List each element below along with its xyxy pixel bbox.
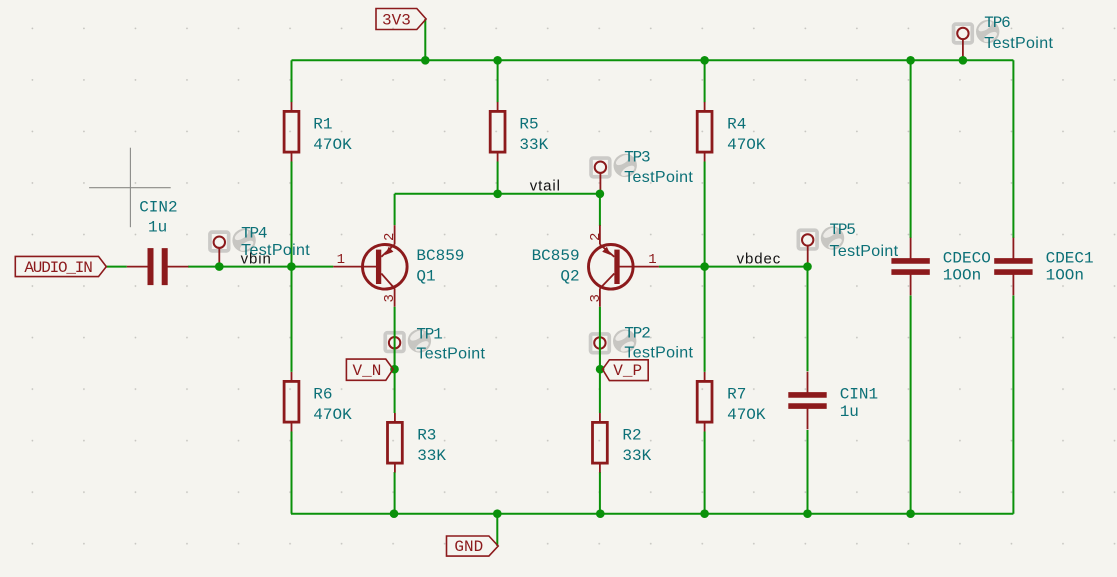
wire rail to CDEC0: [910, 60, 912, 238]
svg-text:GND: GND: [454, 538, 483, 556]
testpoint TP1 body: [383, 328, 431, 369]
node bottom rail/R3 junction: [390, 509, 399, 518]
resistor R6: [284, 372, 352, 432]
global label V_N: [346, 359, 393, 380]
svg-text:R6: R6: [313, 385, 332, 403]
svg-text:1: 1: [648, 252, 656, 268]
svg-text:R4: R4: [727, 115, 746, 133]
svg-text:TP5: TP5: [830, 221, 856, 239]
wire R3 to bottom rail: [394, 472, 396, 514]
resistor R3: [388, 413, 447, 473]
capacitor CIN2: [127, 199, 189, 286]
svg-text:33K: 33K: [519, 136, 548, 154]
anchor cross: [89, 148, 171, 228]
wire rail to R4: [704, 60, 706, 102]
svg-text:BC859: BC859: [532, 247, 580, 265]
svg-text:TP2: TP2: [624, 325, 650, 343]
node bottom rail/R7 junction: [700, 509, 709, 518]
svg-text:1OOn: 1OOn: [1046, 267, 1084, 285]
svg-text:TP4: TP4: [241, 225, 267, 243]
global label V_P: [603, 360, 649, 381]
node vtail/Q2 junction: [596, 190, 605, 199]
node vbin/R1 junction: [287, 262, 296, 271]
wire vtail net: [395, 193, 600, 195]
svg-text:vtail: vtail: [530, 177, 561, 194]
wire Q1 collector to R3: [394, 307, 396, 413]
wire AUDIO_IN to CIN2: [106, 266, 127, 268]
global label GND: [447, 536, 499, 556]
wire R6 to bottom rail: [291, 432, 293, 514]
svg-text:47OK: 47OK: [313, 136, 352, 154]
wire CIN2 to Q1 base vbin: [188, 266, 333, 268]
transistor Q1 BC859: [333, 225, 407, 307]
resistor R4: [697, 102, 766, 162]
node bottom rail/R2 junction: [596, 509, 605, 518]
capacitor CDEC1: [994, 238, 1093, 296]
node vbin/TP4 junction: [215, 262, 224, 271]
svg-text:R7: R7: [727, 385, 746, 403]
wire rail to R5: [497, 60, 499, 102]
svg-text:BC859: BC859: [416, 247, 464, 265]
svg-text:R1: R1: [313, 115, 332, 133]
wire 3V3 label drop: [424, 19, 426, 60]
testpoint TP3 body: [589, 153, 637, 194]
svg-text:CDEC1: CDEC1: [1046, 250, 1094, 268]
testpoint TP2 labels: [624, 325, 693, 362]
svg-text:TestPoint: TestPoint: [624, 169, 693, 186]
svg-text:2: 2: [588, 233, 604, 241]
wire vtail to Q1 emitter: [394, 194, 396, 225]
svg-text:TestPoint: TestPoint: [830, 243, 899, 260]
svg-text:CIN2: CIN2: [139, 199, 177, 217]
node V_N junction: [390, 365, 399, 374]
svg-text:TP1: TP1: [416, 325, 442, 343]
svg-text:47OK: 47OK: [727, 406, 766, 424]
wire CDEC1 column lower: [1012, 296, 1014, 514]
svg-text:TP6: TP6: [984, 14, 1010, 32]
svg-text:2: 2: [382, 233, 398, 241]
svg-text:33K: 33K: [417, 447, 446, 465]
transistor Q1 labels: [416, 247, 464, 286]
svg-text:3: 3: [382, 294, 398, 302]
wire R7 to bottom rail: [704, 432, 706, 514]
svg-text:R3: R3: [417, 426, 436, 444]
node rail/R4 junction: [700, 56, 709, 65]
svg-text:TestPoint: TestPoint: [984, 35, 1053, 52]
testpoint TP2 body: [589, 329, 637, 370]
svg-text:Q1: Q1: [416, 268, 435, 286]
node rail/TP6 junction: [959, 56, 968, 65]
wire vbdec to CIN1: [807, 267, 809, 372]
svg-text:V_N: V_N: [353, 362, 382, 380]
node bottom rail/CDEC0 junction: [906, 509, 915, 518]
svg-text:TestPoint: TestPoint: [416, 346, 485, 363]
resistor R2: [593, 413, 652, 473]
node vbdec/TP5 junction: [803, 262, 812, 271]
global label AUDIO_IN: [15, 256, 106, 276]
testpoint TP4 labels: [241, 225, 310, 259]
resistor R5: [490, 102, 548, 162]
wire R4 to R7 via vbdec: [704, 162, 706, 372]
testpoint TP1 labels: [416, 325, 485, 362]
testpoint TP6 body: [952, 19, 1000, 60]
wire CDEC1 column upper: [1012, 60, 1014, 238]
svg-text:1OOn: 1OOn: [943, 267, 981, 285]
node 3V3 junction: [421, 56, 430, 65]
wire R2 to bottom rail: [599, 472, 601, 514]
svg-text:V_P: V_P: [613, 362, 642, 380]
transistor Q2 BC859: [589, 225, 659, 307]
wire 3V3 top rail: [292, 59, 1014, 61]
testpoint TP5 labels: [830, 221, 899, 260]
svg-text:R2: R2: [622, 426, 641, 444]
svg-text:vbdec: vbdec: [737, 250, 782, 267]
svg-text:1: 1: [337, 252, 345, 268]
node rail/R5 junction: [493, 56, 502, 65]
svg-text:R5: R5: [519, 115, 538, 133]
node V_P junction: [596, 365, 605, 374]
resistor R7: [697, 372, 766, 432]
node bottom rail/CIN1 junction: [803, 509, 812, 518]
svg-text:CDECO: CDECO: [943, 250, 991, 268]
wire GND bottom rail: [291, 513, 1013, 515]
wire CIN1 to bottom rail: [807, 430, 809, 514]
wire R1 to R6 via vbin: [291, 162, 293, 372]
svg-text:3V3: 3V3: [382, 11, 411, 29]
svg-text:3: 3: [588, 294, 604, 302]
svg-text:AUDIO_IN: AUDIO_IN: [24, 259, 92, 277]
wire rail to R1: [291, 60, 293, 102]
svg-text:1u: 1u: [148, 219, 167, 237]
node bottom rail/GND junction: [493, 509, 502, 518]
testpoint TP3 labels: [624, 149, 693, 186]
capacitor CDECO: [891, 238, 990, 296]
wire vtail to Q2 emitter: [599, 194, 601, 226]
testpoint TP5 body: [797, 226, 845, 267]
svg-text:47OK: 47OK: [313, 406, 352, 424]
svg-text:vbin: vbin: [241, 251, 272, 268]
testpoint TP4 body: [208, 228, 256, 267]
transistor Q2 labels: [532, 247, 580, 286]
wire R5 to vtail: [497, 162, 499, 194]
svg-text:CIN1: CIN1: [840, 386, 878, 404]
svg-text:33K: 33K: [622, 447, 651, 465]
wire GND label drop: [496, 514, 498, 546]
svg-text:47OK: 47OK: [727, 136, 766, 154]
testpoint TP6 labels: [984, 14, 1053, 52]
capacitor CIN1: [788, 372, 878, 430]
wire Q2 base vbdec net: [659, 266, 808, 268]
wire CDEC0 to bottom rail: [910, 296, 912, 514]
node vtail/R5 junction: [493, 190, 502, 199]
node rail/CDEC0 junction: [906, 56, 915, 65]
wire Q2 collector to R2: [599, 307, 601, 413]
node vbdec/R4 junction: [700, 262, 709, 271]
global label 3V3: [376, 9, 426, 30]
resistor R1: [284, 102, 352, 162]
svg-text:Q2: Q2: [560, 268, 579, 286]
svg-text:TP3: TP3: [624, 149, 650, 167]
svg-text:1u: 1u: [840, 403, 859, 421]
svg-text:TestPoint: TestPoint: [624, 345, 693, 362]
